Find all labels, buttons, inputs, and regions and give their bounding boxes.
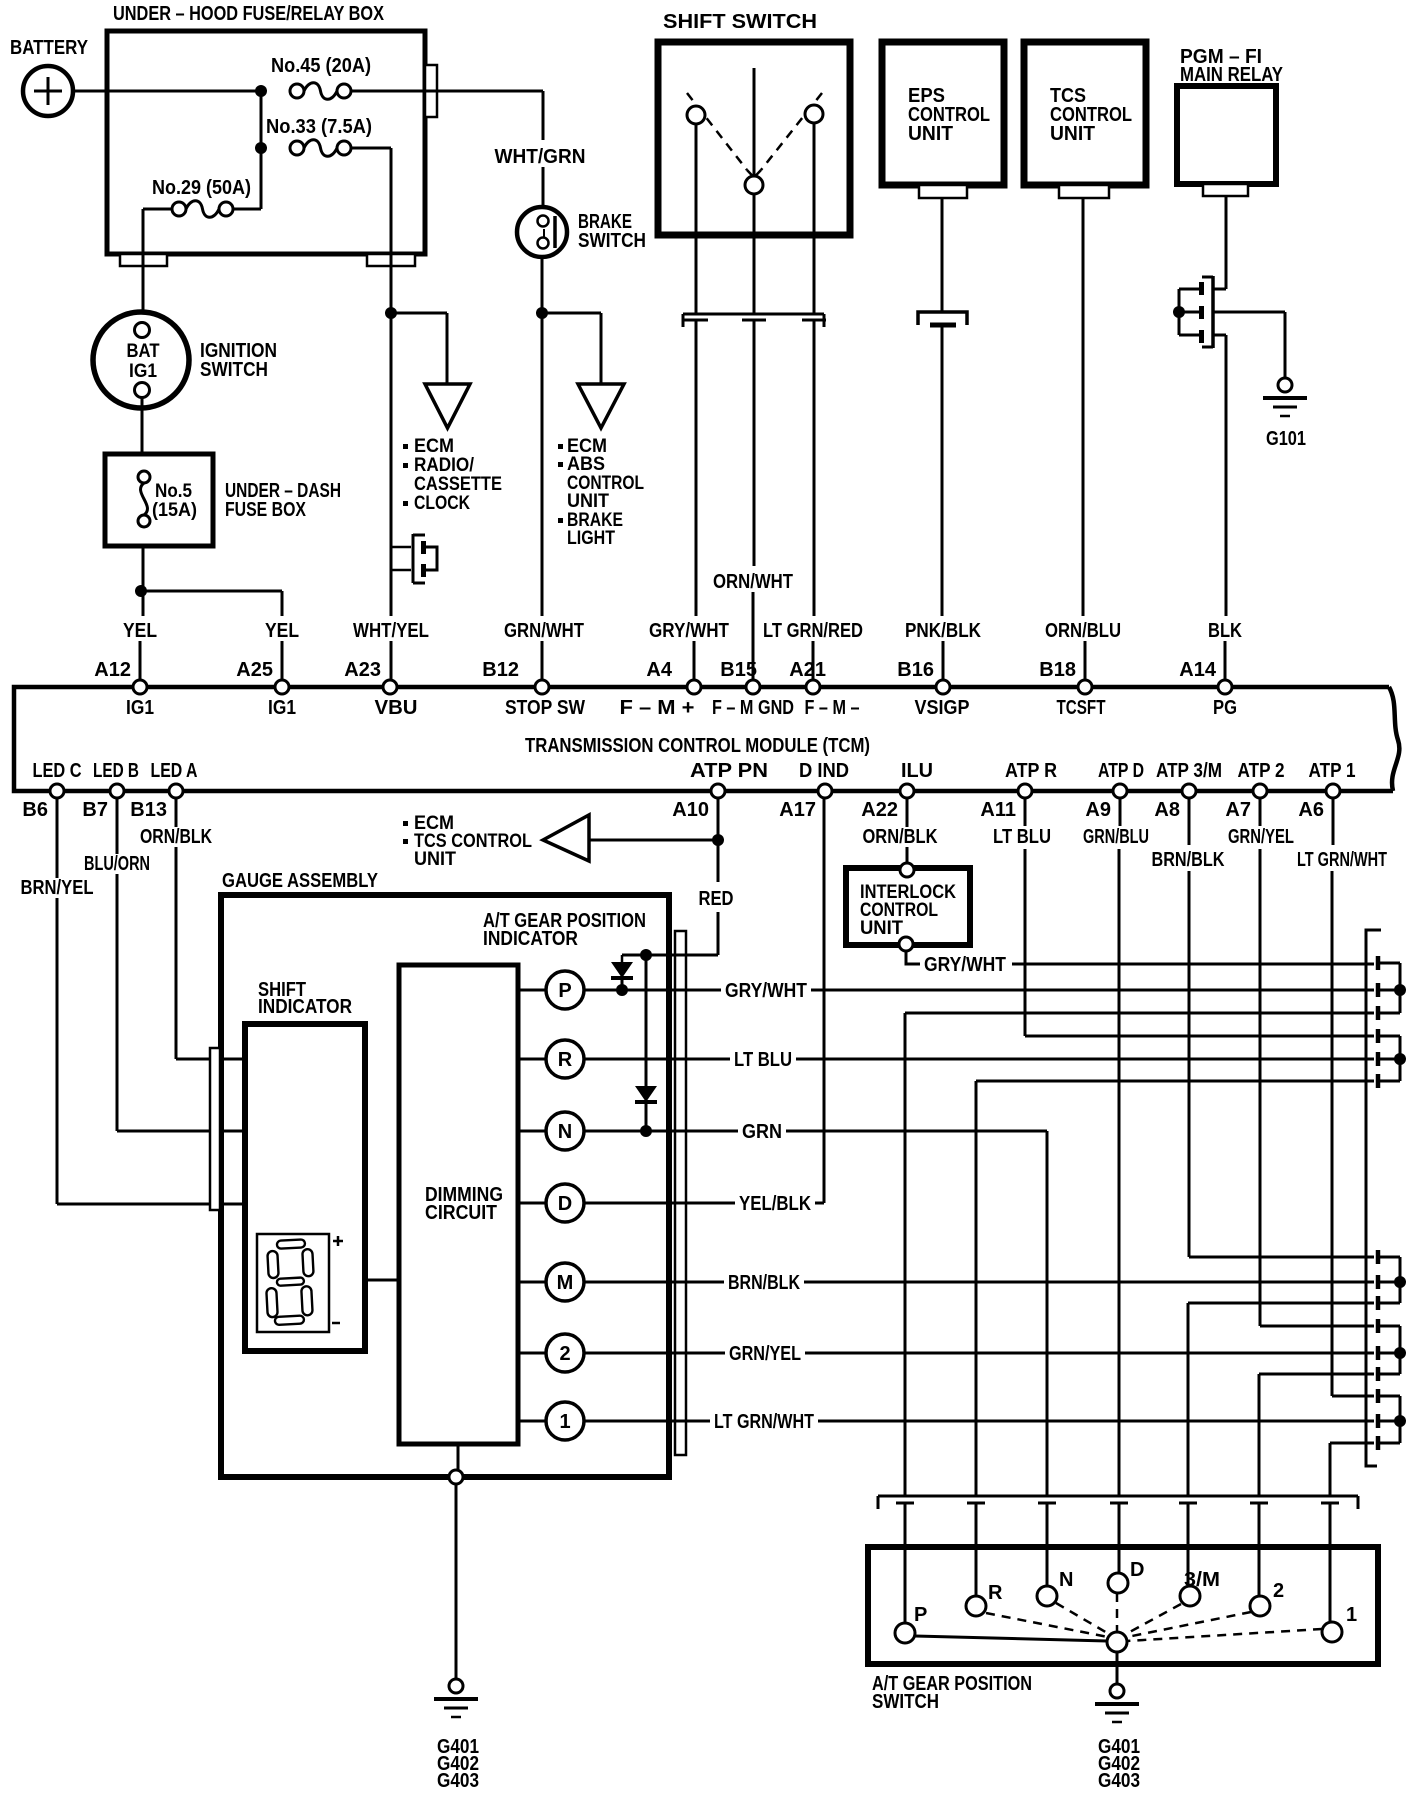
svg-text:ATP D: ATP D [1098, 760, 1144, 782]
connector group 5 top terminal [1376, 1389, 1381, 1403]
svg-text:LT BLU: LT BLU [734, 1049, 792, 1071]
diode to P line [611, 955, 633, 990]
connector group 1 top terminal [1376, 956, 1381, 970]
wires bracket to gear switch box [904, 1503, 907, 1547]
interlock control unit [846, 863, 970, 951]
D line YEL/BLK [584, 1202, 824, 1205]
2 line GRN/YEL [584, 1352, 1374, 1355]
svg-text:1: 1 [559, 1411, 570, 1433]
wire relay down to contact symbol [1225, 196, 1228, 289]
wire YEL to A12 [139, 641, 142, 683]
shift switch wires down [695, 124, 698, 314]
label WHT/YEL [349, 621, 433, 641]
terminal B16 [936, 680, 950, 694]
label LT GRN/RED [759, 621, 867, 641]
svg-text:A10: A10 [672, 799, 709, 821]
label ORN/BLU [1041, 621, 1125, 641]
svg-text:GAUGE ASSEMBLY: GAUGE ASSEMBLY [222, 870, 379, 892]
label GRN/WHT [500, 621, 588, 641]
svg-text:SWITCH: SWITCH [200, 359, 268, 381]
diode to N line [635, 1086, 657, 1131]
wire battery to fuse box [73, 90, 261, 93]
svg-text:YEL: YEL [265, 620, 299, 642]
ground G101 [1263, 378, 1307, 450]
wire group 5 down to gear switch [1329, 1443, 1332, 1496]
connector group 1 middle terminal [1376, 983, 1381, 997]
junction battery feed [255, 85, 267, 97]
fuse No.29 (50A) [152, 177, 251, 217]
under-hood fuse/relay box [107, 3, 425, 254]
label WHT/GRN [491, 147, 590, 167]
connector group 3 top terminal [1376, 1250, 1381, 1264]
svg-text:BLK: BLK [1208, 620, 1242, 642]
svg-text:3/M: 3/M [1184, 1569, 1220, 1591]
svg-text:R: R [988, 1582, 1003, 1604]
svg-text:UNIT: UNIT [414, 849, 456, 870]
svg-text:VSIGP: VSIGP [915, 697, 970, 719]
svg-text:STOP SW: STOP SW [505, 697, 585, 719]
connector group 5 bridge [1399, 1396, 1402, 1443]
svg-text:WHT/GRN: WHT/GRN [495, 146, 586, 168]
connector group 2 top terminal [1376, 1029, 1381, 1043]
connector group 2 bridge [1399, 1036, 1402, 1081]
junction WHT/YEL branch to ECM/RADIO arrow [385, 307, 397, 319]
A/T gear position switch box [868, 1547, 1378, 1713]
svg-text:B15: B15 [720, 659, 757, 681]
svg-text:BRN/BLK: BRN/BLK [1152, 849, 1225, 871]
1 line LT GRN/WHT [584, 1420, 1374, 1423]
wire A7 GRN/YEL [1259, 798, 1262, 826]
svg-text:ORN/BLK: ORN/BLK [863, 826, 938, 848]
wire fuse45 to WHT/GRN corner [351, 90, 543, 93]
svg-text:ATP 2: ATP 2 [1238, 760, 1285, 782]
svg-text:ATP 1: ATP 1 [1309, 760, 1356, 782]
switch contact 2 [1250, 1596, 1270, 1616]
svg-text:B7: B7 [82, 799, 108, 821]
wire branch to ECM/ABS arrow [542, 312, 601, 315]
A11 rail to connector [1025, 1035, 1374, 1038]
wires from connector strip to shift indicator [220, 1058, 245, 1061]
svg-text:P: P [914, 1604, 927, 1626]
connector group 2 bottom terminal [1376, 1074, 1381, 1088]
svg-text:WHT/YEL: WHT/YEL [353, 620, 429, 642]
svg-text:ABS: ABS [567, 454, 605, 475]
svg-text:ATP 3/M: ATP 3/M [1156, 760, 1222, 782]
svg-text:ATP R: ATP R [1005, 760, 1057, 782]
wire to ECM/TCS arrow [589, 839, 718, 842]
connector group 4 bottom terminal [1376, 1367, 1381, 1381]
terminal A12 [133, 680, 147, 694]
indicator lamp D [518, 1202, 546, 1205]
P line GRY/WHT [584, 989, 1374, 992]
svg-text:IG1: IG1 [126, 697, 154, 719]
svg-text:LED B: LED B [93, 760, 139, 782]
terminal B13 [169, 784, 183, 798]
wire YEL to A25 [281, 641, 284, 683]
svg-text:D: D [558, 1193, 572, 1215]
brake switch [517, 207, 646, 257]
connector on right edge of fuse box [425, 65, 437, 117]
shift switch [658, 11, 850, 235]
RED feed rail [622, 954, 718, 957]
wire B7 to gauge connector [116, 798, 119, 1131]
terminal A25 [275, 680, 289, 694]
fuse No.33 (7.5A) [266, 116, 372, 156]
dimming circuit box [399, 965, 518, 1444]
svg-text:M: M [557, 1272, 574, 1294]
svg-text:LED C: LED C [33, 760, 82, 782]
svg-text:UNIT: UNIT [908, 123, 953, 145]
wire to B16 [941, 326, 944, 616]
svg-text:CASSETTE: CASSETTE [414, 474, 502, 495]
wire group 1 down to gear switch [904, 1013, 907, 1496]
svg-text:LIGHT: LIGHT [567, 528, 615, 549]
wire fuse29 right leg to junction [233, 208, 261, 211]
wire fuse box to A12 with branch to A25 [142, 546, 145, 616]
shift indicator box [245, 979, 365, 1351]
svg-text:BRN/BLK: BRN/BLK [728, 1272, 800, 1294]
connector group 4 middle terminal [1376, 1346, 1381, 1360]
svg-text:GRN/WHT: GRN/WHT [504, 620, 584, 642]
svg-text:LT BLU: LT BLU [993, 826, 1051, 848]
wire EPS down [941, 198, 944, 311]
wire group 3 down to gear switch [1187, 1303, 1190, 1496]
svg-text:B13: B13 [130, 799, 167, 821]
switch contact 1 [1322, 1622, 1342, 1642]
A6 rail to connector [1332, 1395, 1374, 1398]
svg-text:ATP PN: ATP PN [690, 760, 768, 782]
svg-text:P: P [558, 980, 571, 1002]
svg-text:UNIT: UNIT [860, 918, 903, 939]
svg-text:BLU/ORN: BLU/ORN [84, 853, 150, 875]
wire A22 to interlock unit [906, 798, 909, 862]
svg-text:SWITCH: SWITCH [872, 1691, 939, 1713]
wire WHT/GRN down to brake switch [542, 91, 545, 140]
svg-text:TRANSMISSION CONTROL MODULE (T: TRANSMISSION CONTROL MODULE (TCM) [525, 735, 870, 757]
svg-text:GRN: GRN [742, 1121, 782, 1143]
wire group 2 down to gear switch [975, 1081, 978, 1496]
svg-text:N: N [1059, 1569, 1073, 1591]
connector group 4 top terminal [1376, 1319, 1381, 1333]
ECM/TCS control unit arrow [403, 813, 589, 870]
svg-text:B18: B18 [1039, 659, 1076, 681]
connector housing right side [1366, 930, 1381, 1466]
svg-text:1: 1 [1346, 1604, 1357, 1626]
terminal A4 [687, 680, 701, 694]
terminal B15 [746, 680, 760, 694]
wire group 4 down to gear switch [1258, 1374, 1261, 1496]
svg-text:INDICATOR: INDICATOR [258, 996, 352, 1018]
svg-text:INDICATOR: INDICATOR [483, 928, 578, 950]
svg-text:ORN/WHT: ORN/WHT [713, 571, 793, 593]
relay contact symbol [1173, 276, 1285, 348]
label BLU/ORN B7 [80, 854, 154, 874]
terminal B18 [1078, 680, 1092, 694]
connector group 3 bottom terminal [1376, 1296, 1381, 1310]
connector group 2 return rail [976, 1080, 1374, 1083]
terminal A6 [1326, 784, 1340, 798]
terminal A17 [818, 784, 832, 798]
junction brake to ECM/ABS arrow [536, 307, 548, 319]
svg-text:No.29 (50A): No.29 (50A) [152, 177, 251, 199]
connector group 3 return rail [1188, 1302, 1374, 1305]
svg-text:MAIN RELAY: MAIN RELAY [1180, 64, 1284, 86]
connector group 1 return rail [905, 1012, 1374, 1015]
A8 rail to connector [1189, 1256, 1374, 1259]
connector group 3 middle terminal [1376, 1275, 1381, 1289]
svg-text:A23: A23 [344, 659, 381, 681]
svg-text:A14: A14 [1179, 659, 1217, 681]
R line LT BLU [584, 1058, 1374, 1061]
switch contact R [966, 1596, 986, 1616]
svg-text:YEL/BLK: YEL/BLK [739, 1193, 811, 1215]
label BLK [1204, 621, 1246, 641]
shift switch connector bracket [683, 314, 826, 327]
connector group 5 bottom terminal [1376, 1436, 1381, 1450]
svg-text:A8: A8 [1154, 799, 1180, 821]
wire shift indicator to dimming circuit [365, 1279, 399, 1282]
left connector strip of gauge [210, 1048, 220, 1210]
wire branch to ECM/RADIO arrow [391, 312, 447, 315]
connector group 5 return rail [1330, 1442, 1374, 1445]
junction on N line [640, 1125, 652, 1137]
svg-text:A25: A25 [236, 659, 273, 681]
svg-text:D: D [1130, 1559, 1144, 1581]
svg-text:GRN/BLU: GRN/BLU [1083, 826, 1149, 848]
label BRN/YEL B6 [17, 878, 98, 898]
svg-text:IG1: IG1 [268, 697, 296, 719]
svg-text:UNIT: UNIT [1050, 123, 1095, 145]
svg-text:2: 2 [559, 1343, 570, 1365]
svg-text:LT GRN/WHT: LT GRN/WHT [714, 1411, 814, 1433]
terminal A21 [806, 680, 820, 694]
svg-text:LT GRN/WHT: LT GRN/WHT [1297, 849, 1387, 871]
right connector strip of gauge [675, 931, 686, 1455]
switch contact D [1108, 1573, 1128, 1593]
wire fuse33 to right drop [351, 147, 391, 150]
svg-text:N: N [558, 1121, 572, 1143]
wire down to diode 2 [645, 955, 648, 1086]
rotor arm P (solid) [915, 1636, 1107, 1641]
svg-text:SWITCH: SWITCH [578, 230, 646, 252]
svg-text:UNIT: UNIT [567, 491, 609, 512]
M line BRN/BLK [584, 1281, 1374, 1284]
wire brake switch to B12 [541, 257, 544, 616]
wire WHT/YEL down to A23 [390, 313, 393, 616]
svg-text:ILU: ILU [901, 760, 933, 782]
svg-text:R: R [558, 1049, 573, 1071]
svg-text:A11: A11 [980, 799, 1016, 821]
wire fuse29 left leg [143, 208, 172, 211]
svg-text:GRN/YEL: GRN/YEL [729, 1343, 801, 1365]
transmission control module (TCM) bus [14, 687, 1399, 791]
svg-text:PG: PG [1213, 697, 1237, 719]
EPS bottom tab [919, 185, 967, 198]
wire B15 down [753, 320, 756, 566]
gear switch connector bracket [878, 1496, 1358, 1509]
svg-text:GRY/WHT: GRY/WHT [649, 620, 729, 642]
svg-text:RED: RED [699, 888, 734, 910]
junction A10 branch [712, 834, 724, 846]
indicator lamp 2 [518, 1352, 546, 1355]
fuse No.45 (20A) [271, 55, 371, 99]
wire B13 to gauge connector [175, 798, 178, 1059]
junction on P line [616, 984, 628, 996]
svg-text:BAT: BAT [127, 341, 160, 362]
terminal B6 [50, 784, 64, 798]
terminal A8 [1182, 784, 1196, 798]
switch rotor pivot [1107, 1632, 1127, 1652]
svg-text:ORN/BLK: ORN/BLK [140, 826, 212, 848]
connector group 1 bottom terminal [1376, 1006, 1381, 1020]
PGM-FI bottom tab [1203, 184, 1248, 196]
svg-text:ECM: ECM [414, 436, 454, 457]
wire to ground G101 [1284, 312, 1287, 378]
svg-text:GRY/WHT: GRY/WHT [725, 980, 807, 1002]
rotor dashes [986, 1613, 1108, 1637]
svg-text:GRN/YEL: GRN/YEL [1228, 826, 1294, 848]
under-dash fuse box with fuse No.5 (15A) [105, 454, 341, 546]
gauge bottom terminal and wire to ground [457, 1444, 460, 1470]
ignition switch [93, 312, 277, 408]
wire A9 GRN/BLU to gear switch D [1119, 798, 1122, 826]
svg-text:YEL: YEL [123, 620, 157, 642]
svg-text:VBU: VBU [375, 697, 418, 719]
svg-text:A22: A22 [861, 799, 898, 821]
left bottom tab of fuse box [120, 254, 167, 266]
junction on red rail [640, 949, 652, 961]
connector group 3 bridge [1399, 1257, 1402, 1303]
svg-text:G403: G403 [437, 1770, 479, 1792]
gauge assembly box [221, 870, 669, 1477]
ground G401 G402 G403 left [434, 1679, 479, 1792]
svg-text:UNDER – HOOD FUSE/RELAY BOX: UNDER – HOOD FUSE/RELAY BOX [113, 3, 385, 25]
terminal B12 [535, 680, 549, 694]
terminal A22 [900, 784, 914, 798]
wire BLK to A14 [1225, 335, 1228, 616]
svg-text:A21: A21 [789, 659, 826, 681]
N wire to gear switch [1046, 1131, 1049, 1496]
label GRY/WHT A4 [645, 621, 733, 641]
svg-text:A17: A17 [779, 799, 816, 821]
wire ignition switch to under-dash fuse box [141, 397, 144, 454]
connector group 1 bridge [1399, 963, 1402, 1013]
svg-text:A12: A12 [94, 659, 131, 681]
label PNK/BLK [901, 621, 985, 641]
svg-text:D IND: D IND [799, 760, 849, 782]
svg-text:B6: B6 [22, 799, 48, 821]
svg-text:SHIFT SWITCH: SHIFT SWITCH [663, 11, 817, 33]
wire A11 LT BLU [1024, 798, 1027, 826]
svg-text:B12: B12 [482, 659, 519, 681]
wire TCS to B18 [1082, 198, 1085, 616]
svg-text:F – M GND: F – M GND [712, 697, 794, 719]
switch contact N [1037, 1586, 1057, 1606]
svg-text:No.33 (7.5A): No.33 (7.5A) [266, 116, 372, 138]
N line GRN [584, 1130, 1047, 1133]
7-segment display [257, 1234, 343, 1332]
terminal B7 [110, 784, 124, 798]
connector group 2 middle terminal [1376, 1052, 1381, 1066]
terminal A14 [1218, 680, 1232, 694]
EPS inline connector [918, 312, 967, 325]
indicator lamp M [518, 1281, 546, 1284]
terminal A11 [1018, 784, 1032, 798]
wire junction down to fuse33 [260, 91, 263, 148]
svg-text:F – M –: F – M – [805, 697, 860, 719]
TCS control unit [1024, 42, 1146, 185]
battery [10, 37, 89, 116]
interlock GRY/WHT stub [906, 951, 920, 964]
svg-text:BATTERY: BATTERY [10, 37, 89, 59]
svg-text:No.45 (20A): No.45 (20A) [271, 55, 371, 77]
ECM/RADIO/CASSETTE/CLOCK arrow [403, 384, 502, 514]
svg-text:B16: B16 [897, 659, 934, 681]
svg-text:IG1: IG1 [129, 361, 157, 382]
svg-text:G101: G101 [1266, 428, 1306, 450]
svg-text:CIRCUIT: CIRCUIT [425, 1202, 497, 1224]
indicator lamp 1 [518, 1420, 546, 1423]
svg-text:F – M +: F – M + [620, 697, 695, 719]
label ORN/BLK B13 [136, 827, 216, 847]
TCS bottom tab [1059, 185, 1109, 198]
svg-text:PNK/BLK: PNK/BLK [905, 620, 981, 642]
junction fuse33 [255, 142, 267, 154]
connector group 4 bridge [1399, 1326, 1402, 1374]
svg-text:A4: A4 [646, 659, 672, 681]
svg-text:FUSE BOX: FUSE BOX [225, 499, 307, 521]
wires into switch contacts [904, 1547, 907, 1622]
terminal A10 [711, 784, 725, 798]
svg-text:A6: A6 [1298, 799, 1324, 821]
wire A8 BRN/BLK [1188, 798, 1191, 845]
svg-text:RADIO/: RADIO/ [414, 455, 475, 476]
svg-text:GRY/WHT: GRY/WHT [924, 954, 1006, 976]
connector group 5 middle terminal [1376, 1414, 1381, 1428]
label ORN/WHT [709, 572, 797, 592]
svg-text:ORN/BLU: ORN/BLU [1045, 620, 1121, 642]
svg-text:CLOCK: CLOCK [414, 493, 470, 514]
connector group 4 return rail [1259, 1373, 1374, 1376]
two-contact tap symbol on WHT/YEL wire [391, 534, 437, 583]
indicator lamp P [518, 989, 546, 992]
svg-text:(15A): (15A) [152, 500, 197, 521]
svg-text:2: 2 [1273, 1580, 1284, 1602]
junction under fuse No.5 [135, 585, 147, 597]
svg-text:LT GRN/RED: LT GRN/RED [763, 620, 863, 642]
ground G401 G402 G403 right [1095, 1684, 1140, 1792]
svg-text:G403: G403 [1098, 1770, 1140, 1792]
wire A10 down [717, 798, 720, 882]
indicator lamp R [518, 1058, 546, 1061]
svg-text:A7: A7 [1225, 799, 1251, 821]
right bottom tab of fuse box [367, 254, 415, 266]
wire A4 down [695, 320, 698, 616]
switch contact 3/M [1180, 1586, 1200, 1606]
terminal A23 [383, 680, 397, 694]
svg-text:No.5: No.5 [155, 481, 192, 502]
wire B6 to gauge connector [56, 798, 59, 1204]
wire pivot to ground [1116, 1652, 1119, 1684]
svg-text:LED A: LED A [151, 760, 198, 782]
svg-text:BRN/YEL: BRN/YEL [21, 877, 94, 899]
EPS control unit [882, 42, 1004, 185]
terminal A7 [1253, 784, 1267, 798]
PGM-FI main relay [1177, 46, 1284, 184]
wire A6 LT GRN/WHT [1332, 798, 1335, 845]
indicator lamp N [518, 1130, 546, 1133]
A7 rail to connector [1260, 1325, 1374, 1328]
